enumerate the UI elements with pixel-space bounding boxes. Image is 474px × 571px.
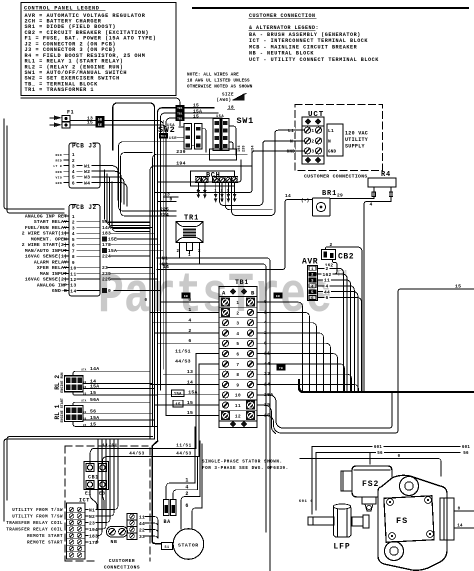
wire long top — [21, 98, 180, 126]
svg-text:6: 6 — [72, 180, 75, 186]
svg-text:4: 4 — [72, 169, 75, 175]
wire 56 — [316, 452, 460, 454]
svg-text:6: 6 — [311, 297, 314, 301]
wires RL1 — [73, 402, 150, 405]
svg-text:13: 13 — [187, 369, 193, 375]
wire 15 top — [158, 108, 214, 441]
wire BCH drop right — [225, 183, 272, 210]
wires TR1 pins — [179, 248, 181, 258]
svg-text:15A: 15A — [216, 115, 224, 119]
svg-text:5: 5 — [197, 190, 200, 194]
wire bus verticals — [162, 120, 164, 369]
svg-text:5: 5 — [311, 291, 314, 295]
relay RL 1 — [65, 406, 84, 422]
svg-text:5: 5 — [236, 342, 239, 347]
neutral block NB — [107, 527, 128, 538]
svg-text:14: 14 — [90, 378, 96, 384]
svg-text:13: 13 — [70, 283, 76, 289]
wire 2 — [181, 497, 200, 529]
svg-text:44: 44 — [324, 289, 330, 295]
svg-text:L1: L1 — [328, 128, 334, 134]
svg-text:183: 183 — [102, 231, 111, 237]
wire 601 — [312, 446, 460, 448]
svg-text:CB1: CB1 — [88, 475, 99, 481]
svg-text:B: B — [251, 290, 255, 297]
svg-text:6: 6 — [72, 243, 75, 249]
wire 224 — [121, 153, 177, 217]
legend box control panel — [21, 3, 176, 96]
svg-text:SINGLE-PHASE STATOR SHOWN.: SINGLE-PHASE STATOR SHOWN. — [202, 460, 283, 465]
svg-text:FUEL/RUN RELAY: FUEL/RUN RELAY — [25, 225, 67, 231]
svg-text:REMOTE START: REMOTE START — [27, 535, 63, 539]
svg-text:15: 15 — [193, 113, 199, 119]
svg-text:11: 11 — [70, 271, 76, 277]
svg-text:W1: W1 — [84, 163, 90, 169]
svg-text:178: 178 — [89, 540, 98, 546]
svg-text:N: N — [328, 138, 331, 144]
svg-text:15A: 15A — [167, 124, 175, 128]
wire 15A top — [161, 113, 219, 390]
svg-text:1: 1 — [188, 307, 191, 313]
svg-text:4: 4 — [311, 285, 314, 289]
svg-text:14: 14 — [285, 193, 291, 199]
wire 194 to corner — [158, 160, 241, 182]
svg-text:1: 1 — [311, 268, 314, 272]
svg-text:L1: L1 — [288, 128, 294, 134]
svg-text:14: 14 — [187, 379, 193, 385]
svg-text:14: 14 — [70, 288, 76, 294]
svg-text:120 VAC: 120 VAC — [345, 131, 368, 137]
svg-text:PCB J3: PCB J3 — [72, 143, 97, 150]
svg-text:BA - BRUSH ASSEMBLY (GENERATO: BA - BRUSH ASSEMBLY (GENERATOR) — [249, 32, 361, 38]
svg-text:3: 3 — [72, 225, 75, 231]
svg-text:ORN: ORN — [56, 171, 62, 174]
svg-text:14: 14 — [457, 525, 463, 529]
svg-text:(AWG): (AWG) — [216, 98, 231, 103]
wire 239 — [153, 154, 248, 426]
wire 15 top2 — [166, 118, 222, 128]
svg-text:FS: FS — [396, 516, 408, 526]
stator S1 lug — [162, 543, 173, 550]
svg-text:2 WIRE START(1): 2 WIRE START(1) — [22, 231, 67, 237]
svg-text:1: 1 — [185, 478, 188, 484]
svg-text:15: 15 — [193, 103, 199, 109]
svg-text:CUSTOMER CONNECTIONS: CUSTOMER CONNECTIONS — [304, 174, 368, 180]
svg-text:PartsTree: PartsTree — [98, 265, 332, 329]
svg-text:225: 225 — [102, 277, 111, 283]
svg-text:8: 8 — [72, 254, 75, 260]
svg-text:4: 4 — [188, 318, 191, 324]
brush assembly BA — [164, 500, 170, 516]
svg-text:86: 86 — [83, 417, 87, 420]
svg-text:6: 6 — [188, 338, 191, 344]
svg-text:1: 1 — [72, 214, 75, 220]
svg-text:239: 239 — [176, 149, 186, 155]
svg-text:29: 29 — [337, 193, 343, 199]
svg-text:1: 1 — [236, 301, 239, 306]
svg-text:15: 15 — [90, 421, 96, 427]
svg-text:TB1: TB1 — [177, 107, 183, 110]
svg-text:CONNECTIONS: CONNECTIONS — [104, 565, 140, 571]
svg-text:10: 10 — [70, 266, 76, 272]
svg-text:2: 2 — [325, 266, 328, 272]
svg-text:N2: N2 — [89, 514, 95, 520]
wires AVR pins — [318, 268, 344, 392]
svg-text:87A: 87A — [81, 400, 86, 403]
svg-text:TB: TB — [279, 367, 283, 370]
svg-text:30: 30 — [83, 411, 87, 414]
svg-text:TB1: TB1 — [177, 117, 183, 120]
wire 13 from F1 — [70, 121, 163, 124]
svg-text:11: 11 — [235, 404, 241, 409]
svg-text:11: 11 — [324, 278, 330, 284]
wire 0 right — [454, 510, 474, 512]
svg-text:0: 0 — [144, 298, 147, 303]
svg-text:W3: W3 — [84, 175, 90, 181]
svg-text:194: 194 — [176, 161, 186, 167]
wire 162 — [317, 260, 337, 275]
wire 15A row10 — [257, 393, 392, 428]
svg-text:XFER RELAY: XFER RELAY — [37, 265, 67, 271]
svg-text:CB2: CB2 — [338, 253, 354, 262]
svg-text:2: 2 — [329, 242, 332, 248]
svg-text:11/S1: 11/S1 — [175, 348, 191, 354]
svg-text:UCT: UCT — [308, 111, 324, 119]
svg-text:224: 224 — [160, 212, 169, 218]
svg-text:2: 2 — [185, 491, 188, 497]
svg-text:178: 178 — [102, 242, 111, 248]
svg-text:SW1: SW1 — [237, 116, 254, 126]
wire 225 — [119, 142, 185, 211]
fuel solenoid FS2 — [352, 466, 392, 497]
svg-text:2: 2 — [188, 328, 191, 334]
svg-text:RED: RED — [56, 159, 62, 162]
wires TB1 A side — [161, 301, 220, 303]
svg-text:UTILITY: UTILITY — [345, 137, 368, 143]
svg-text:4: 4 — [203, 190, 206, 194]
svg-text:VIO: VIO — [56, 176, 62, 179]
wire N — [220, 141, 305, 206]
svg-text:23: 23 — [89, 520, 95, 526]
wire 11/S1 — [90, 449, 196, 464]
wire 15 row12 long — [257, 289, 474, 433]
svg-text:8: 8 — [236, 373, 239, 378]
svg-text:S1: S1 — [165, 546, 170, 550]
svg-text:W4: W4 — [84, 180, 90, 186]
svg-text:CUSTOMER CONNECTION: CUSTOMER CONNECTION — [249, 13, 316, 19]
FS right connector — [440, 498, 454, 540]
svg-text:OTHERWISE NOTED AS SHOWN: OTHERWISE NOTED AS SHOWN — [187, 85, 253, 90]
svg-text:4: 4 — [185, 484, 188, 490]
svg-text:5: 5 — [72, 237, 75, 243]
wire N2 — [160, 264, 266, 532]
svg-text:REMOTE START: REMOTE START — [27, 542, 63, 546]
svg-text:2 WIRE START(2): 2 WIRE START(2) — [22, 242, 67, 248]
svg-text:ICT - INTERCONNECT TERMINAL BL: ICT - INTERCONNECT TERMINAL BLOCK — [249, 38, 368, 44]
svg-text:15A: 15A — [108, 248, 117, 254]
svg-text:UTILITY FROM T/SW: UTILITY FROM T/SW — [12, 508, 63, 513]
svg-text:MAN INPUT: MAN INPUT — [40, 271, 67, 277]
svg-text:SIZE: SIZE — [222, 94, 234, 98]
svg-text:2: 2 — [311, 141, 314, 145]
svg-text:UCT - UTILITY CONNECT TERMINA: UCT - UTILITY CONNECT TERMINAL BLOCK — [249, 57, 379, 63]
svg-text:3: 3 — [311, 151, 314, 155]
wire L1 — [232, 130, 305, 215]
svg-text:3: 3 — [72, 163, 75, 169]
svg-text:3: 3 — [236, 322, 239, 327]
svg-text:EB: EB — [276, 295, 280, 298]
svg-text:0: 0 — [108, 288, 111, 294]
svg-text:RL 2: RL 2 — [54, 375, 61, 390]
wire left edge 2 — [7, 126, 64, 213]
svg-text:NB - NEUTRAL BLOCK: NB - NEUTRAL BLOCK — [249, 51, 314, 57]
wire 14 right — [454, 527, 474, 529]
svg-text:87A: 87A — [81, 369, 86, 372]
svg-text:MAN/AUTO INPUT: MAN/AUTO INPUT — [25, 248, 67, 254]
wire bus bottom turn — [4, 439, 155, 521]
circuit breaker CB1 — [84, 462, 109, 490]
svg-text:START RELAY: START RELAY — [34, 219, 67, 225]
svg-text:22: 22 — [139, 527, 145, 533]
svg-text:162: 162 — [322, 272, 331, 278]
svg-text:LFP: LFP — [333, 543, 350, 552]
wire 2 — [326, 247, 363, 392]
svg-text:85: 85 — [83, 424, 87, 427]
wires ICT risers — [96, 440, 118, 510]
svg-text:2: 2 — [221, 190, 224, 194]
svg-text:5E: 5E — [98, 123, 103, 127]
svg-text:A: A — [222, 290, 226, 297]
svg-text:2: 2 — [236, 311, 239, 316]
svg-text:FOR 3-PHASE SEE DWG. 0F6839.: FOR 3-PHASE SEE DWG. 0F6839. — [202, 466, 289, 471]
svg-text:N: N — [290, 138, 293, 144]
svg-text:33: 33 — [139, 534, 145, 540]
svg-text:2: 2 — [72, 158, 75, 164]
svg-text:NOTE: ALL WIRES ARE: NOTE: ALL WIRES ARE — [187, 73, 239, 78]
svg-text:F1: F1 — [67, 110, 74, 116]
BCH drop wires — [197, 183, 199, 196]
svg-text:RL 1: RL 1 — [54, 404, 61, 419]
svg-text:LT B: LT B — [53, 165, 62, 168]
watermark — [98, 265, 347, 329]
customer connection dashed box — [64, 446, 66, 561]
svg-text:239: 239 — [102, 271, 111, 277]
svg-text:86: 86 — [83, 386, 87, 389]
svg-text:ALARM RELAY: ALARM RELAY — [34, 259, 67, 265]
svg-text:TRANSFER RELAY COIL: TRANSFER RELAY COIL — [6, 529, 63, 533]
svg-text:9: 9 — [236, 383, 239, 388]
svg-text:GRN: GRN — [56, 182, 62, 185]
svg-text:BA: BA — [164, 519, 171, 525]
svg-text:NB: NB — [111, 539, 118, 545]
svg-text:BR1: BR1 — [322, 190, 337, 198]
svg-text:MOMENT. OPEN: MOMENT. OPEN — [31, 236, 67, 242]
wire 44/S3 — [103, 457, 200, 464]
svg-text:15: 15 — [90, 390, 96, 396]
FS2 valve neck — [362, 497, 376, 504]
svg-text:GND: GND — [328, 149, 337, 154]
svg-text:30: 30 — [83, 381, 87, 384]
svg-text:0: 0 — [458, 508, 461, 512]
svg-text:PCB J2: PCB J2 — [72, 204, 97, 211]
svg-text:239: 239 — [243, 146, 247, 152]
svg-text:SUPPLY: SUPPLY — [345, 144, 365, 150]
svg-text:GND: GND — [287, 149, 296, 154]
svg-text:0: 0 — [398, 455, 401, 459]
svg-text:EB: EB — [184, 295, 188, 298]
wire 6 — [192, 508, 202, 529]
svg-text:12: 12 — [235, 414, 241, 419]
wire 0 feed — [158, 201, 176, 203]
switch bracket — [209, 149, 236, 160]
fuel pipe left — [308, 517, 334, 525]
wire GND — [155, 151, 305, 193]
svg-text:UTILITY FROM T/SW: UTILITY FROM T/SW — [12, 515, 63, 520]
svg-text:15A: 15A — [90, 415, 99, 421]
wire 15 row11 — [257, 405, 276, 433]
svg-text:1: 1 — [311, 130, 314, 134]
svg-text:183: 183 — [89, 533, 98, 539]
svg-text:15A: 15A — [90, 384, 99, 390]
svg-text:7: 7 — [72, 248, 75, 254]
svg-text:225: 225 — [160, 207, 169, 213]
relay RL 2 — [65, 376, 84, 392]
wire 0 fuel — [300, 459, 441, 477]
svg-text:56A: 56A — [90, 397, 99, 403]
fuel solenoid FS body — [378, 475, 447, 570]
svg-text:85: 85 — [83, 392, 87, 395]
top border line — [193, 7, 468, 9]
svg-text:56: 56 — [377, 452, 383, 456]
svg-text:44/S3: 44/S3 — [129, 452, 145, 457]
wire 29 — [330, 198, 374, 200]
svg-text:TR1 = TRANSFORMER 1: TR1 = TRANSFORMER 1 — [25, 87, 95, 93]
svg-text:ENGINE START: ENGINE START — [61, 398, 65, 422]
svg-text:2: 2 — [176, 250, 179, 254]
svg-text:1: 1 — [72, 152, 75, 158]
svg-text:14A: 14A — [90, 366, 99, 372]
wires CB1 bottom — [90, 489, 97, 510]
svg-text:6: 6 — [236, 353, 239, 358]
wires RL2 — [73, 371, 150, 376]
svg-text:3: 3 — [227, 190, 230, 194]
svg-text:56: 56 — [90, 409, 96, 415]
wire left edge 1 — [4, 119, 64, 209]
svg-text:56: 56 — [463, 452, 469, 456]
svg-text:5B: 5B — [98, 117, 103, 121]
svg-text:1: 1 — [188, 254, 191, 258]
wire 14 to BR1 — [157, 200, 312, 270]
svg-text:5: 5 — [72, 175, 75, 181]
svg-text:ANALOG INP: ANALOG INP — [37, 282, 67, 288]
svg-text:N1: N1 — [89, 507, 95, 513]
wire harness thick — [299, 380, 474, 392]
wire 4 field boost — [364, 202, 391, 393]
wire 1 — [166, 483, 195, 500]
svg-text:15E: 15E — [169, 137, 177, 141]
svg-text:4: 4 — [72, 231, 75, 237]
svg-text:16VAC SENSE(2): 16VAC SENSE(2) — [25, 277, 67, 283]
wire 15E — [177, 136, 184, 138]
wire 13 to BCH — [163, 196, 178, 198]
svg-text:9: 9 — [72, 260, 75, 266]
svg-text:15E: 15E — [108, 236, 117, 242]
svg-text:15A: 15A — [174, 393, 182, 397]
battery charger BCH — [191, 171, 235, 186]
fuel filter LFP — [334, 506, 352, 537]
wire 15 from F1 — [70, 125, 166, 128]
svg-text:0: 0 — [170, 196, 173, 202]
svg-text:15: 15 — [187, 410, 193, 416]
svg-text:4: 4 — [236, 332, 239, 337]
svg-text:11/S1: 11/S1 — [176, 444, 192, 449]
svg-text:194: 194 — [89, 527, 98, 533]
svg-text:TB1: TB1 — [177, 112, 183, 115]
FS face plate — [384, 496, 434, 542]
svg-text:16VAC SENSE(1): 16VAC SENSE(1) — [25, 254, 67, 260]
svg-text:STATOR: STATOR — [178, 543, 199, 549]
svg-text:44/S3: 44/S3 — [176, 452, 192, 457]
svg-text:2: 2 — [311, 274, 314, 278]
svg-text:224: 224 — [102, 254, 111, 260]
svg-text:ANALOG INP RET: ANALOG INP RET — [25, 214, 67, 220]
svg-text:FS2: FS2 — [362, 480, 379, 489]
svg-text:6: 6 — [185, 503, 188, 509]
svg-text:15: 15 — [87, 120, 93, 126]
svg-text:RED: RED — [56, 154, 62, 157]
svg-text:44/S3: 44/S3 — [175, 359, 191, 365]
svg-text:4: 4 — [325, 283, 328, 289]
terminal block UCT — [295, 105, 383, 171]
svg-text:15: 15 — [455, 284, 461, 290]
svg-text:601 0: 601 0 — [299, 500, 314, 504]
svg-text:W2: W2 — [84, 169, 90, 175]
svg-text:MCB - MAINLINE CIRCUIT BREAKER: MCB - MAINLINE CIRCUIT BREAKER — [249, 44, 358, 50]
svg-text:2: 2 — [72, 220, 75, 226]
svg-text:TRANSFER RELAY COIL: TRANSFER RELAY COIL — [6, 522, 63, 526]
svg-text:18 AWG UL LISTED UNLESS: 18 AWG UL LISTED UNLESS — [187, 79, 250, 84]
stator — [173, 529, 204, 560]
svg-text:ENGINE RUN: ENGINE RUN — [61, 372, 65, 392]
svg-text:6: 6 — [325, 295, 328, 301]
svg-text:GND-B: GND-B — [52, 288, 67, 294]
wire 194 — [150, 166, 251, 439]
svg-text:10: 10 — [235, 394, 241, 399]
wire bridge main — [113, 103, 155, 439]
svg-text:194: 194 — [252, 145, 256, 152]
svg-text:15: 15 — [175, 403, 181, 407]
svg-text:7: 7 — [236, 363, 239, 368]
svg-text:15: 15 — [187, 400, 193, 406]
svg-text:601: 601 — [374, 446, 382, 450]
svg-text:3: 3 — [311, 279, 314, 283]
svg-text:E1: E1 — [85, 491, 92, 497]
wires J3 drop — [105, 170, 151, 223]
svg-text:194: 194 — [238, 145, 242, 152]
svg-text:4: 4 — [369, 202, 372, 208]
svg-text:TB1: TB1 — [235, 279, 249, 286]
svg-text:CUSTOMER: CUSTOMER — [109, 558, 135, 564]
svg-text:1: 1 — [214, 190, 217, 194]
svg-text:12: 12 — [70, 277, 76, 283]
svg-text:11: 11 — [139, 514, 145, 520]
wire N1 — [157, 258, 270, 528]
svg-text:601: 601 — [462, 446, 470, 450]
svg-text:& ALTERNATOR LEGEND:: & ALTERNATOR LEGEND: — [249, 25, 319, 31]
svg-text:44: 44 — [139, 521, 145, 527]
stator lead terminals 11 44 22 33 — [127, 514, 137, 520]
svg-text:23: 23 — [102, 265, 108, 271]
